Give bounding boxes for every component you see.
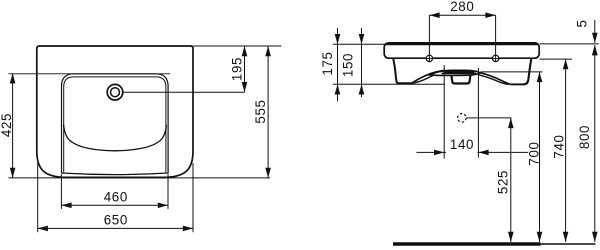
svg-text:195: 195 xyxy=(229,57,244,81)
svg-text:175: 175 xyxy=(320,51,335,75)
svg-text:700: 700 xyxy=(526,141,541,165)
svg-text:150: 150 xyxy=(341,53,356,77)
svg-text:740: 740 xyxy=(552,134,567,158)
svg-text:800: 800 xyxy=(577,125,592,149)
svg-text:650: 650 xyxy=(104,213,128,228)
svg-text:525: 525 xyxy=(495,170,510,194)
svg-text:425: 425 xyxy=(0,113,14,137)
svg-text:460: 460 xyxy=(104,190,128,205)
svg-text:5: 5 xyxy=(575,19,590,27)
svg-text:280: 280 xyxy=(450,0,474,14)
svg-text:140: 140 xyxy=(450,137,474,152)
svg-text:555: 555 xyxy=(253,99,268,123)
